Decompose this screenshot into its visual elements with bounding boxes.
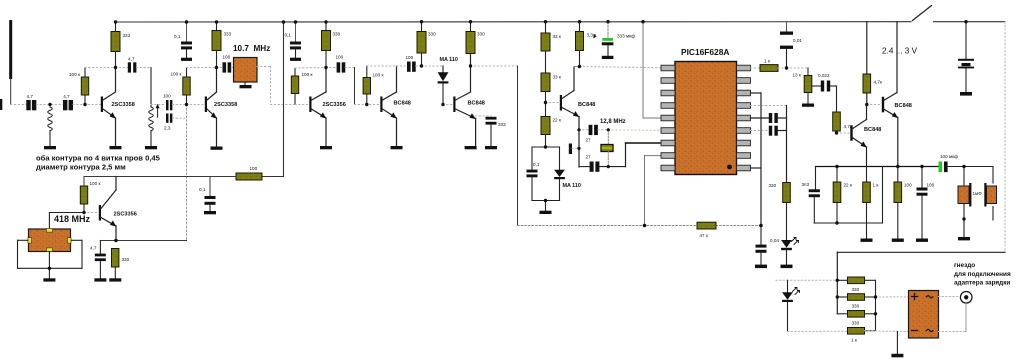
svg-text:для подключения: для подключения bbox=[954, 271, 1011, 278]
wire base stage2 bbox=[187, 104, 205, 106]
svg-text:2SC3356: 2SC3356 bbox=[114, 212, 137, 218]
wire crystal to pin6 dotted bbox=[608, 129, 661, 132]
resistor 330 ladder c bbox=[848, 311, 865, 326]
pin R4 bbox=[737, 103, 751, 109]
resistor 330 osc emitter bbox=[112, 249, 130, 279]
resistor 33k upper bbox=[541, 22, 562, 73]
node emitter Q8 bbox=[0, 0, 1, 1]
pin L4 bbox=[661, 103, 675, 109]
pin R6 bbox=[737, 128, 751, 134]
wire detector drop bbox=[517, 66, 519, 226]
svg-text:2,3: 2,3 bbox=[164, 126, 171, 131]
svg-text:3п3: 3п3 bbox=[802, 182, 810, 187]
svg-text:330: 330 bbox=[769, 183, 777, 188]
capacitor 0,1 decoupl stage2 bbox=[174, 22, 192, 58]
svg-text:0,04: 0,04 bbox=[770, 238, 779, 243]
node detector pin8 bbox=[0, 0, 1, 1]
antenna bbox=[9, 20, 12, 105]
svg-text:47 к: 47 к bbox=[700, 233, 709, 238]
capacitor 100 trimmer bbox=[163, 94, 172, 111]
resistor 4,7k audio coupling bbox=[833, 86, 853, 133]
node junction 579.5,66.5 bbox=[578, 65, 581, 68]
svg-text:100 к: 100 к bbox=[171, 72, 183, 77]
resistor 13k pwm bbox=[793, 68, 812, 104]
ground 0,04 bbox=[755, 265, 767, 269]
ground filter bbox=[240, 85, 252, 88]
wire bracket to rectifier dotted bbox=[876, 296, 909, 298]
node base Q6 bbox=[546, 102, 560, 104]
svg-text:2.4 ... 3 V: 2.4 ... 3 V bbox=[882, 47, 918, 56]
wire rail to PIC pin5 bbox=[643, 22, 661, 118]
svg-text:100: 100 bbox=[904, 183, 912, 188]
svg-text:22 к: 22 к bbox=[844, 183, 853, 188]
switch SA1 bbox=[913, 6, 1006, 22]
svg-text:4,7: 4,7 bbox=[27, 94, 34, 99]
svg-text:418 MHz: 418 MHz bbox=[54, 214, 91, 224]
pin R7 bbox=[737, 140, 751, 146]
resistor 1k emitter Q7 bbox=[863, 167, 880, 239]
ground 13k bbox=[802, 104, 814, 107]
filter 10.7 MHz bbox=[233, 44, 270, 85]
node junction 84,212.5 bbox=[82, 211, 85, 214]
resistor 3,3k osc bbox=[574, 22, 597, 67]
resistor 47k bbox=[697, 222, 716, 238]
node junction L1 bbox=[0, 0, 1, 1]
node crystal bottom bbox=[0, 0, 1, 1]
svg-text:BC848: BC848 bbox=[468, 101, 485, 107]
capacitor pin5 bbox=[769, 113, 787, 123]
ground cap 0,1 stage3 bbox=[290, 58, 301, 61]
node junction 545.5,102.5 bbox=[544, 101, 547, 104]
ground resistor 330 osc bbox=[109, 278, 121, 281]
wire feedback bottom bbox=[814, 167, 882, 224]
wire osc emitter bbox=[100, 240, 186, 242]
node junction 579,148.4 bbox=[577, 147, 580, 150]
resistor 100 load bbox=[894, 167, 912, 239]
node junction 608.3,129.8 bbox=[607, 128, 610, 131]
node junction 50,104.5 bbox=[48, 103, 51, 106]
resistor 333 stage2 bbox=[212, 22, 232, 68]
node junction 421.5,66 bbox=[420, 64, 423, 67]
wire resonator bottom bbox=[48, 252, 50, 279]
node junction 866.8,104.5 bbox=[865, 103, 868, 106]
wire charger top bbox=[837, 252, 1005, 313]
wire pin3R pin9R to detector bbox=[751, 93, 762, 226]
svg-text:0,1: 0,1 bbox=[285, 33, 292, 38]
wire pin1R to 1k bbox=[751, 67, 761, 69]
resistor 330 stage3 bbox=[322, 22, 341, 68]
svg-text:330: 330 bbox=[333, 32, 341, 37]
wire LED2 top dotted bbox=[776, 279, 837, 281]
ground piezo bbox=[958, 237, 970, 240]
node junction 608.3,166.6 bbox=[607, 165, 610, 168]
node junction 837.3,297 bbox=[836, 295, 839, 298]
wire base stage5 bbox=[443, 104, 453, 106]
node base Q8 bbox=[867, 104, 882, 106]
node pwm filter bbox=[0, 0, 1, 1]
svg-text:100 к: 100 к bbox=[69, 72, 81, 77]
capacitor 0,022 bbox=[812, 73, 837, 92]
svg-text:100: 100 bbox=[223, 55, 231, 60]
svg-text:330: 330 bbox=[852, 304, 860, 309]
resistor 4,7k upper bias bbox=[863, 22, 883, 105]
pin R8 bbox=[737, 153, 751, 159]
ground Q2 bbox=[211, 147, 223, 150]
label 12,8 MHz bbox=[600, 119, 626, 125]
node junction 875.5,313.8 bbox=[874, 312, 877, 315]
ground cap 100 bbox=[916, 239, 928, 242]
svg-text:0,022: 0,022 bbox=[818, 73, 830, 78]
resistor 33k middle bbox=[541, 73, 562, 117]
svg-text:333: 333 bbox=[224, 32, 232, 37]
resistor 330 ladder a bbox=[848, 277, 865, 292]
node rail pic bbox=[0, 0, 1, 1]
node junction 115.5,67.5 bbox=[114, 66, 117, 69]
node junction 295.5,22 bbox=[294, 20, 297, 23]
node piezo left bbox=[0, 0, 1, 1]
inductor L1 bbox=[48, 107, 53, 146]
wire tank2 bbox=[150, 68, 152, 107]
rectifier bridge bbox=[909, 291, 939, 339]
transistor Q1 2SC3358 bbox=[101, 68, 135, 147]
node rail 33k osc bbox=[0, 0, 1, 1]
svg-text:оба контура по 4 витка пров 0,: оба контура по 4 витка пров 0,45 bbox=[36, 154, 161, 163]
wire pin8 to detector line bbox=[645, 156, 662, 226]
wire pin6R cap bbox=[751, 130, 769, 132]
node crystal top bbox=[0, 0, 1, 1]
node junction 443,104.5 bbox=[441, 103, 444, 106]
node tank stage2 bbox=[0, 0, 1, 1]
svg-text:2SC3356: 2SC3356 bbox=[323, 102, 346, 108]
pin R3 bbox=[737, 90, 751, 96]
box detector bottom bbox=[532, 201, 560, 211]
wire pin5R cap bbox=[751, 117, 769, 119]
node junction 49.4,268.3 bbox=[48, 267, 51, 270]
node junction 837,223 bbox=[835, 221, 838, 224]
ground 100 bbox=[892, 239, 904, 242]
svg-text:100 к: 100 к bbox=[302, 72, 314, 77]
capacitor 4,7 input2 bbox=[63, 94, 73, 110]
ground cap 4,7 osc bbox=[94, 278, 106, 281]
node junction 608,21.7 bbox=[606, 20, 609, 23]
wire pwm dotted bbox=[787, 67, 809, 69]
node rail s5 bbox=[0, 0, 1, 1]
capacitor 0,04 agc bbox=[756, 226, 780, 265]
diode MA110 det1 bbox=[438, 57, 458, 105]
wire s4 coupling drop bbox=[355, 68, 381, 105]
wire Q6 to PIC pin1 dotted bbox=[580, 67, 662, 68]
wire rect bottom to jack dotted bbox=[939, 304, 967, 332]
node junction 186.5,22 bbox=[185, 20, 188, 23]
node junction 216.5,22 bbox=[215, 20, 218, 23]
transistor Q2 2SC3358 bbox=[205, 68, 238, 147]
svg-text:4,7: 4,7 bbox=[128, 57, 135, 62]
ground cap 333 bbox=[485, 146, 497, 149]
node ladder a bbox=[837, 279, 847, 281]
mark arrow small bbox=[594, 34, 597, 39]
jack XS1 bbox=[960, 292, 972, 304]
ground 1k bbox=[861, 239, 873, 242]
capacitor 4,7 input1 bbox=[26, 94, 36, 110]
wire charge bottom dotted bbox=[788, 330, 909, 333]
svg-text:BC848: BC848 bbox=[864, 127, 881, 133]
resistor R 100k stage3 bbox=[291, 68, 313, 105]
resistor 1k pwm bbox=[760, 59, 787, 72]
node junction 897.8,166.5 bbox=[896, 165, 899, 168]
node junction 326,22 bbox=[324, 20, 327, 23]
svg-text:0,01: 0,01 bbox=[793, 38, 802, 43]
wire bias stage4 dotted bbox=[367, 65, 397, 67]
wire bias stage1 dotted bbox=[85, 67, 116, 69]
capacitor 4,7 osc emitter bbox=[90, 241, 106, 279]
node collector Q1 bbox=[0, 0, 1, 1]
node junction 115.3,240.5 bbox=[114, 239, 116, 241]
svg-text:0,1: 0,1 bbox=[174, 34, 181, 39]
node junction 922,166.5 bbox=[920, 165, 923, 168]
node junction 643,21.7 bbox=[641, 20, 644, 23]
svg-text:1 к: 1 к bbox=[873, 183, 880, 188]
electrolytic 100 mkf bbox=[939, 154, 994, 172]
svg-text:PIC16F628A: PIC16F628A bbox=[681, 47, 729, 57]
pin R9 bbox=[737, 165, 751, 171]
svg-text:100: 100 bbox=[250, 166, 258, 171]
node collector Q3 bbox=[0, 0, 1, 1]
resistor 1k ladder d bbox=[848, 328, 865, 343]
capacitor plate single bbox=[569, 144, 579, 155]
svg-text:0,1: 0,1 bbox=[199, 187, 206, 192]
wire resonator left loop bbox=[18, 240, 83, 268]
pin L2 bbox=[661, 78, 675, 84]
svg-text:27: 27 bbox=[586, 138, 592, 143]
wire feedback vertical dotted bbox=[186, 105, 188, 241]
svg-text:BC848: BC848 bbox=[895, 103, 912, 109]
node rail Q2 bbox=[0, 0, 1, 1]
wire rect to jack dotted bbox=[939, 296, 961, 298]
svg-text:330: 330 bbox=[852, 287, 860, 292]
svg-text:330: 330 bbox=[122, 257, 130, 262]
capacitor 100 output bbox=[917, 167, 935, 239]
node junction 761,225.5 bbox=[759, 224, 763, 228]
resistor R 100k stage1 bbox=[69, 68, 89, 105]
node junction 85,104.5 bbox=[83, 103, 86, 106]
electrolytic 333 mkf bbox=[602, 22, 635, 56]
ground 333 mkf bbox=[602, 56, 614, 59]
node collector Q5 out bbox=[471, 65, 518, 67]
node detector right bbox=[0, 0, 1, 1]
node junction 545.5,147 bbox=[544, 145, 547, 148]
capacitor 27 upper bbox=[586, 125, 609, 143]
svg-text:4,7: 4,7 bbox=[63, 94, 70, 99]
svg-text:4,7к: 4,7к bbox=[874, 80, 883, 85]
resistor R 100k osc bbox=[80, 177, 101, 213]
resistor 330 stage4 bbox=[417, 22, 436, 66]
svg-text:333: 333 bbox=[123, 33, 131, 38]
node junction 786.5,68 bbox=[785, 66, 788, 69]
svg-text:1 к: 1 к bbox=[851, 338, 858, 343]
transistor Q4 BC848 bbox=[380, 66, 411, 146]
pin L1 bbox=[661, 65, 675, 71]
svg-text:13 к: 13 к bbox=[793, 73, 802, 78]
ground Q1 bbox=[110, 146, 122, 149]
node junction 644.5,225.5 bbox=[643, 224, 647, 228]
capacitor 100 coupling s3-s4 bbox=[326, 55, 355, 73]
label charger bbox=[954, 262, 1011, 287]
pin R1 bbox=[737, 65, 751, 71]
resistor R 100k stage4 bbox=[363, 66, 384, 105]
node base Q1 bbox=[0, 0, 1, 1]
resistor 330 stage5 bbox=[466, 22, 485, 54]
node junction 875.5,297 bbox=[874, 295, 877, 298]
svg-text:BC848: BC848 bbox=[578, 102, 595, 108]
svg-text:22 к: 22 к bbox=[553, 118, 562, 123]
wire base stage3 bbox=[295, 104, 309, 106]
ground L1 bbox=[44, 146, 56, 149]
capacitor 4,7 coupling s1-s2 bbox=[116, 57, 152, 73]
LED D1 bbox=[781, 238, 798, 265]
ground detector bbox=[540, 211, 552, 214]
node junction 326,67.5 bbox=[324, 66, 327, 69]
wire bbox=[73, 104, 101, 106]
node collector Q6 bbox=[0, 0, 1, 1]
capacitor 3n3 bbox=[802, 167, 820, 224]
node junction 837,166.5 bbox=[835, 165, 838, 168]
svg-text:100: 100 bbox=[336, 55, 344, 60]
svg-text:100: 100 bbox=[406, 55, 414, 60]
svg-text:100 к: 100 к bbox=[90, 181, 102, 186]
pin R2 bbox=[737, 78, 751, 84]
node junction 216.5,67.5 bbox=[215, 66, 218, 69]
svg-text:10.7 MHz: 10.7 MHz bbox=[233, 44, 270, 53]
label battery bbox=[882, 47, 918, 56]
pin L3 bbox=[661, 90, 675, 96]
svg-text:330: 330 bbox=[852, 321, 860, 326]
node rail s3cap bbox=[0, 0, 1, 1]
node collector Q2 bbox=[0, 0, 1, 1]
capacitor 0,1 osc bbox=[199, 177, 216, 212]
wire pin4R dotted to LED chain bbox=[751, 106, 787, 183]
ground Q5 bbox=[465, 146, 477, 149]
wire osc emitter bottom bbox=[579, 166, 590, 168]
node junction 966,21.7 bbox=[964, 20, 967, 23]
transistor Qosc 2SC3356 bbox=[99, 177, 137, 241]
LED D2 charge bbox=[782, 280, 799, 331]
node junction 115.5,22 bbox=[114, 20, 117, 23]
svg-text:1 к: 1 к bbox=[764, 59, 771, 64]
node junction 836.5,133 bbox=[835, 131, 838, 134]
IC U1 PIC16F628A body bbox=[675, 62, 737, 175]
node junction 579.5,21.7 bbox=[578, 20, 581, 23]
svg-text:333: 333 bbox=[498, 122, 506, 127]
pin L5 bbox=[661, 115, 675, 121]
piezo cap 1mF left bbox=[958, 167, 982, 238]
resistor 22k feedback bbox=[833, 167, 853, 224]
detector line right segment bbox=[716, 225, 761, 227]
connector stub left edge bbox=[0, 99, 2, 110]
node junction 421.5,21.7 bbox=[420, 20, 423, 23]
transistor Q3 2SC3356 bbox=[309, 68, 346, 147]
node junction 283.5,22 bbox=[282, 20, 285, 23]
wire audio bus y166 bbox=[816, 166, 939, 168]
node rail 333mkf bbox=[0, 0, 1, 1]
svg-text:4,7: 4,7 bbox=[90, 246, 97, 251]
svg-text:гнездо: гнездо bbox=[954, 262, 975, 269]
capacitor 0,01 pwm bbox=[780, 22, 802, 68]
node junction 470.5,66 bbox=[469, 64, 472, 67]
node ladder b bbox=[837, 296, 847, 298]
node junction 366.8,104.5 bbox=[365, 103, 368, 106]
svg-text:33 к: 33 к bbox=[553, 75, 562, 80]
wire filter out dotted bbox=[257, 67, 295, 105]
transistor Q6 BC848 osc bbox=[560, 67, 596, 168]
wire osc emitter node1 bbox=[579, 129, 589, 131]
ground LED1 bbox=[781, 265, 793, 269]
svg-text:333 мкф: 333 мкф bbox=[617, 34, 635, 39]
ground resonator bbox=[43, 278, 55, 281]
node 330-diode bbox=[422, 65, 444, 67]
ground cap 0,1 osc bbox=[204, 211, 216, 214]
svg-text:330: 330 bbox=[477, 32, 485, 37]
ground Q4 bbox=[391, 146, 403, 149]
resistor R 100k stage2 bbox=[171, 68, 191, 105]
ground Q3 bbox=[320, 146, 332, 149]
ground L2 bbox=[145, 146, 157, 149]
transistor Q7 BC848 driver bbox=[850, 105, 881, 167]
wire input dotted bbox=[11, 104, 27, 106]
svg-text:BC848: BC848 bbox=[394, 101, 411, 107]
trimmer arrow bbox=[156, 104, 160, 117]
capacitor 27 lower bbox=[586, 155, 626, 172]
svg-text:MA 110: MA 110 bbox=[440, 57, 458, 63]
crystal 12,8 MHz bbox=[601, 130, 613, 167]
wire detector line long bbox=[518, 225, 698, 227]
capacitor 100 coupling s2-filter bbox=[217, 55, 234, 73]
ground battery bbox=[960, 92, 972, 96]
node junction 837.3,280.3 bbox=[836, 279, 839, 282]
wire bias stage2 dotted bbox=[187, 67, 217, 69]
wire osc supply vertical bbox=[283, 22, 285, 177]
diode MA110 det2 bbox=[554, 170, 581, 201]
svg-text:100 мкф: 100 мкф bbox=[940, 154, 958, 159]
wire osc base bbox=[49, 213, 98, 230]
resistor 330 led1 bbox=[769, 183, 791, 241]
pin R5 bbox=[737, 115, 751, 121]
resistor 333 stage1 bbox=[111, 22, 131, 68]
svg-text:27: 27 bbox=[586, 155, 592, 160]
transistor Q5 BC848 bbox=[453, 54, 485, 147]
resistor 330 ladder b bbox=[848, 294, 865, 309]
resistor 100 osc feed horizontal bbox=[84, 166, 284, 180]
wire to pin7 bbox=[626, 143, 662, 167]
node junction 964,166.5 bbox=[962, 165, 965, 168]
node rail 33k bbox=[0, 0, 1, 1]
node rail s4 bbox=[0, 0, 1, 1]
label 418 MHz bbox=[54, 214, 91, 224]
wire tank dotted bbox=[151, 104, 166, 106]
capacitor 0,1 detector bbox=[527, 162, 540, 201]
svg-text:330: 330 bbox=[428, 32, 436, 37]
capacitor 2,3 trimmer bbox=[164, 114, 172, 131]
ground cap 0,1 stage2 bbox=[181, 58, 192, 61]
wire bias stage3 dotted bbox=[295, 67, 326, 70]
node base stage4 bbox=[0, 0, 1, 1]
node junction 545.5,200.5 bbox=[544, 199, 547, 202]
junction dots layer bbox=[48, 20, 968, 315]
pin L6 bbox=[661, 128, 675, 134]
inductor L2 bbox=[149, 107, 154, 146]
node junction 964,219 bbox=[962, 217, 965, 220]
node junction 186.5,104.5 bbox=[185, 103, 188, 106]
capacitor 0,1 decoupl stage3 bbox=[285, 22, 302, 58]
